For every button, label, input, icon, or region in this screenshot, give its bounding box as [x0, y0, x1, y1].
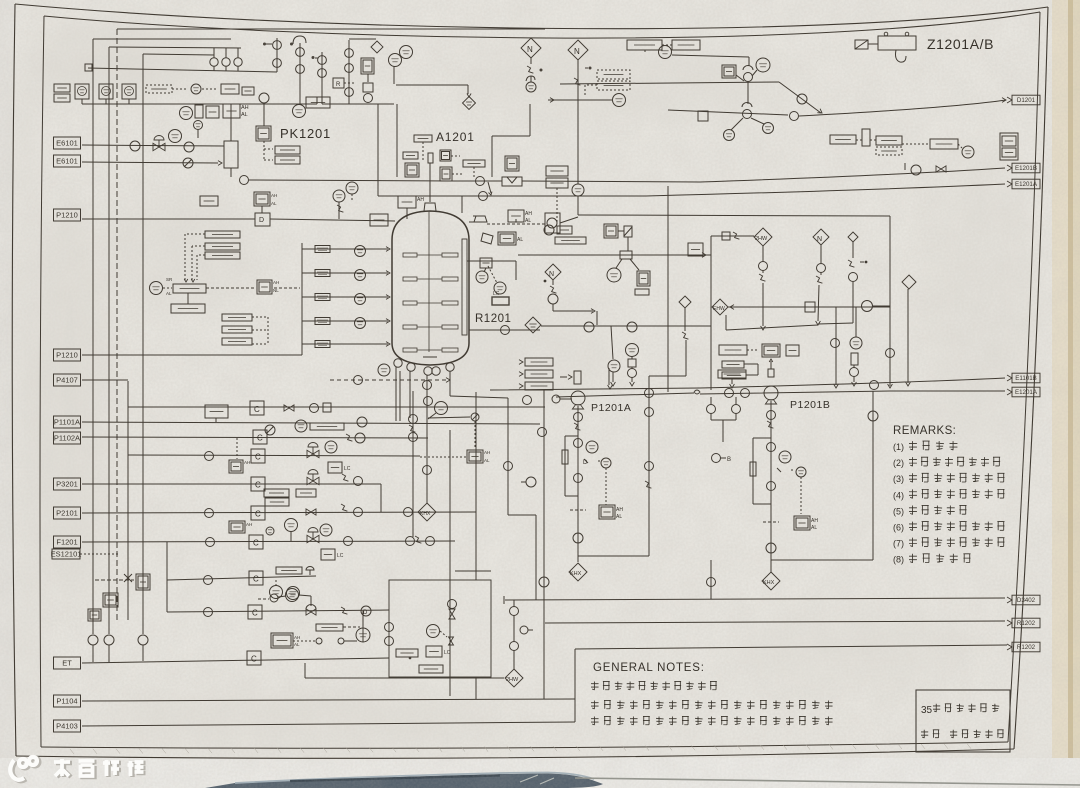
svg-text:P1101A: P1101A	[54, 418, 80, 427]
svg-text:AH: AH	[484, 450, 490, 455]
svg-text:D3402: D3402	[1017, 597, 1036, 604]
svg-text:N: N	[527, 45, 533, 54]
svg-text:C: C	[254, 405, 260, 414]
svg-text:(5): (5)	[893, 506, 904, 516]
svg-text:N: N	[574, 47, 580, 56]
svg-text:E1101B: E1101B	[1015, 375, 1037, 382]
svg-text:P2101: P2101	[56, 509, 78, 518]
svg-text:AL: AL	[484, 458, 490, 463]
svg-text:(6): (6)	[893, 523, 904, 533]
svg-text:EHW: EHW	[713, 306, 725, 312]
svg-text:AL: AL	[271, 201, 277, 206]
svg-text:AH: AH	[271, 193, 277, 198]
svg-text:LC: LC	[337, 553, 344, 559]
svg-text:D1201: D1201	[1017, 97, 1036, 104]
svg-text:AH: AH	[246, 522, 252, 527]
svg-text:R: R	[336, 82, 341, 88]
svg-text:(1): (1)	[893, 442, 904, 452]
svg-text:P1201B: P1201B	[790, 399, 830, 411]
svg-text:P1210: P1210	[56, 351, 78, 360]
svg-text:SR: SR	[166, 277, 173, 282]
svg-text:LC: LC	[444, 650, 451, 656]
svg-text:KHX: KHX	[420, 511, 431, 517]
svg-text:R1202: R1202	[1017, 620, 1036, 627]
svg-text:D: D	[259, 217, 264, 224]
svg-text:R1201: R1201	[475, 313, 511, 325]
svg-text:R1202: R1202	[1017, 644, 1036, 651]
svg-text:P1102A: P1102A	[54, 434, 80, 443]
svg-text:P1104: P1104	[56, 697, 77, 706]
svg-text:PK1201: PK1201	[280, 126, 331, 141]
svg-text:E1201A: E1201A	[1015, 181, 1038, 188]
svg-text:(3): (3)	[893, 474, 904, 484]
svg-text:AH: AH	[244, 460, 250, 465]
svg-text:E6101: E6101	[56, 157, 78, 166]
svg-text:C: C	[253, 539, 259, 548]
svg-text:ES12101: ES12101	[51, 550, 82, 559]
svg-text:P3201: P3201	[56, 480, 78, 489]
svg-text:AL: AL	[811, 525, 817, 531]
svg-text:B: B	[727, 457, 731, 463]
svg-text:E1201B: E1201B	[1015, 165, 1037, 172]
svg-text:AH: AH	[273, 280, 279, 285]
svg-text:E6101: E6101	[56, 139, 78, 148]
svg-text:AH: AH	[811, 518, 818, 524]
svg-text:C: C	[257, 434, 263, 443]
svg-text:C: C	[251, 655, 257, 664]
svg-text:C: C	[255, 481, 261, 490]
svg-text:AH: AH	[525, 211, 532, 217]
svg-text:F1201: F1201	[56, 538, 77, 547]
svg-text:(2): (2)	[893, 458, 904, 468]
svg-text:AL: AL	[616, 514, 622, 520]
svg-text:P1210: P1210	[56, 211, 78, 220]
svg-text:C: C	[253, 575, 259, 584]
svg-text:P4103: P4103	[56, 722, 78, 731]
svg-text:LC: LC	[493, 291, 500, 297]
svg-text:AL: AL	[241, 112, 248, 118]
svg-text:P4107: P4107	[56, 376, 78, 385]
svg-text:(7): (7)	[893, 539, 904, 549]
svg-text:KHX: KHX	[763, 580, 775, 586]
svg-text:(4): (4)	[893, 490, 904, 500]
svg-text:AL: AL	[525, 218, 531, 224]
svg-text:ET: ET	[62, 659, 72, 668]
svg-text:C: C	[255, 453, 261, 462]
svg-text:REMARKS:: REMARKS:	[893, 425, 956, 437]
svg-text:2HW: 2HW	[755, 236, 768, 242]
svg-text:D: D	[583, 460, 588, 466]
svg-text:C: C	[255, 510, 261, 519]
svg-text:LC: LC	[344, 466, 351, 472]
svg-text:GENERAL NOTES:: GENERAL NOTES:	[593, 662, 705, 674]
svg-text:NL: NL	[273, 288, 279, 293]
svg-text:AH: AH	[294, 635, 300, 640]
svg-text:2HW: 2HW	[506, 677, 519, 683]
svg-text:AL: AL	[517, 237, 523, 243]
svg-text:E1201A: E1201A	[1015, 389, 1038, 396]
svg-text:AL: AL	[294, 642, 300, 647]
svg-text:A1201: A1201	[436, 130, 475, 144]
svg-text:AH: AH	[241, 105, 249, 111]
svg-text:(8): (8)	[893, 555, 904, 565]
svg-text:P1201A: P1201A	[591, 402, 631, 414]
svg-text:AL: AL	[166, 291, 172, 296]
svg-text:Z1201A/B: Z1201A/B	[927, 36, 994, 52]
svg-text:D: D	[363, 610, 368, 616]
svg-text:N: N	[817, 236, 822, 243]
svg-text:C: C	[252, 609, 258, 618]
svg-text:KHX: KHX	[570, 571, 582, 577]
svg-text:AH: AH	[616, 507, 623, 513]
svg-text:AH: AH	[417, 197, 424, 203]
svg-text:N: N	[549, 271, 554, 278]
svg-text:35: 35	[921, 705, 933, 716]
